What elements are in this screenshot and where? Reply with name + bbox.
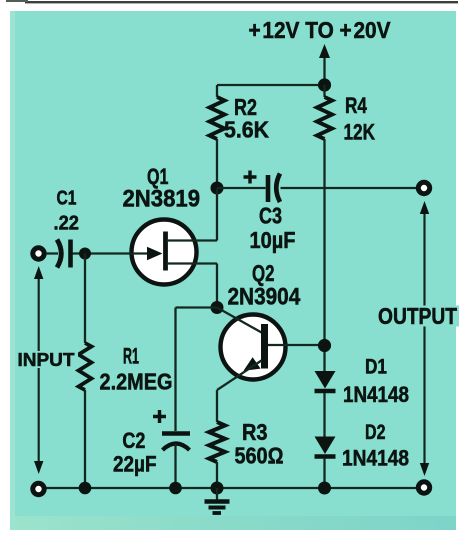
transistor Q2 internals: [244, 324, 269, 371]
svg-text:C1: C1: [57, 188, 77, 210]
input span arrow: [34, 266, 43, 474]
label R4: [345, 93, 368, 118]
svg-text:560Ω: 560Ω: [235, 443, 284, 469]
wire C3 to output terminal: [281, 187, 417, 189]
diode D1: [315, 371, 336, 391]
capacitor C2: [153, 410, 190, 450]
label D1: [365, 356, 387, 379]
svg-text:R1: R1: [123, 344, 139, 369]
svg-text:12K: 12K: [344, 120, 376, 145]
label 22uF: [113, 452, 157, 477]
node R1 bottom: [79, 482, 92, 495]
resistor R3: [209, 422, 225, 462]
wire R3 bottom lead: [216, 462, 218, 488]
svg-text:Q2: Q2: [252, 260, 275, 286]
resistor R4: [317, 97, 332, 139]
svg-text:5.6K: 5.6K: [224, 117, 269, 143]
svg-text:10µF: 10µF: [250, 227, 296, 253]
wire bottom ground rail: [46, 487, 417, 489]
ground: [205, 488, 230, 513]
label 10uF: [250, 227, 296, 253]
wire C2 bottom lead: [174, 444, 176, 488]
svg-text:R4: R4: [345, 93, 368, 118]
wire C1 to gate node: [73, 252, 149, 254]
label Q1: [147, 164, 169, 189]
wire R4 leads: [323, 85, 325, 371]
label R1: [123, 344, 139, 369]
capacitor C3: [244, 171, 281, 203]
diode D2: [315, 437, 336, 457]
wire C2 branch: [176, 308, 218, 432]
label 1N4148 lower: [342, 446, 409, 471]
node gate junction: [79, 248, 91, 260]
wire Q1 drain: [166, 188, 217, 241]
svg-text:R3: R3: [242, 419, 268, 445]
svg-text:2.2MEG: 2.2MEG: [100, 369, 173, 395]
svg-text:D2: D2: [365, 421, 386, 444]
wire Q2 base: [217, 308, 262, 333]
label OUTPUT: [376, 303, 459, 329]
label 2N3904: [228, 284, 301, 311]
wire D2 to ground rail: [323, 458, 325, 488]
label 5.6K: [224, 117, 269, 143]
output span arrow: [420, 201, 429, 476]
capacitor C1: [57, 240, 71, 268]
label 2N3819: [123, 186, 201, 213]
svg-text:D1: D1: [365, 356, 387, 379]
svg-text:C2: C2: [122, 428, 145, 453]
wire Q2 emitter: [217, 361, 262, 423]
terminal input top: [33, 248, 44, 259]
label +12V TO +20V: [249, 17, 392, 43]
node D2 bottom: [318, 482, 331, 495]
label INPUT: [16, 349, 78, 370]
node C2 bottom: [169, 482, 182, 495]
label 12K: [344, 120, 376, 145]
wire C3 left lead: [217, 187, 266, 189]
svg-text:OUTPUT: OUTPUT: [378, 303, 457, 329]
transistor Q1 body: [132, 220, 197, 285]
label 560 ohm: [235, 443, 284, 469]
node collector junction: [318, 339, 331, 352]
label 2.2MEG: [100, 369, 173, 395]
label .22: [54, 213, 80, 235]
label R3: [242, 419, 268, 445]
svg-text:2N3819: 2N3819: [123, 186, 201, 213]
terminal output bottom: [418, 482, 429, 493]
label C1: [57, 188, 77, 210]
svg-text:1N4148: 1N4148: [343, 382, 409, 407]
svg-text:+ 12V TO + 20V: + 12V TO + 20V: [249, 17, 392, 43]
node source junction: [211, 301, 224, 314]
label C2: [122, 428, 145, 453]
label D2: [365, 421, 386, 444]
resistor R2: [210, 97, 225, 139]
wire R2 leads: [216, 85, 218, 188]
label R2: [234, 94, 257, 120]
label Q2: [252, 260, 275, 286]
wire input lead: [46, 252, 58, 254]
label 1N4148 upper: [343, 382, 409, 407]
svg-text:2N3904: 2N3904: [228, 284, 301, 311]
transistor Q2 body: [221, 315, 286, 380]
node supply junction: [318, 78, 331, 91]
svg-text:1N4148: 1N4148: [342, 446, 409, 471]
node R3 bottom: [211, 482, 224, 495]
resistor R1: [79, 343, 92, 390]
terminal output top: [418, 182, 429, 193]
svg-text:22µF: 22µF: [113, 452, 157, 477]
wire top supply rail: [217, 84, 325, 86]
transistor Q1 internals: [147, 232, 166, 271]
power +12V arrow: [319, 44, 330, 85]
wire D1 to D2: [323, 393, 325, 437]
wire Q2 collector: [268, 344, 325, 346]
svg-text:.22: .22: [54, 213, 80, 235]
terminal input bottom: [33, 483, 44, 494]
node Q1 drain junction: [211, 182, 224, 195]
svg-text:INPUT: INPUT: [18, 349, 76, 370]
wire Q1 source: [166, 264, 217, 308]
resistor R1 leads: [84, 254, 86, 489]
label C3: [259, 203, 282, 229]
top border line: [6, 0, 458, 3]
svg-text:C3: C3: [259, 203, 282, 229]
